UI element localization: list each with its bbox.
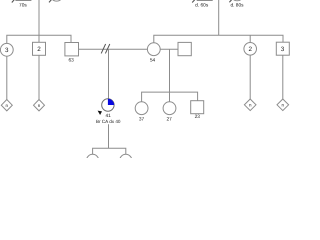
svg-text:Br CA dx 40: Br CA dx 40 [96, 119, 121, 124]
svg-text:63: 63 [69, 58, 75, 64]
svg-text:2: 2 [248, 46, 252, 53]
person II-7 square 3 [276, 42, 289, 55]
wire descent to proband [108, 49, 110, 99]
person III-2 circle 37 [135, 102, 148, 115]
person II-2 square 2 [33, 42, 46, 55]
label Br CA dx 40 [96, 119, 121, 124]
label 27 [167, 116, 173, 122]
label 41 [106, 113, 112, 119]
wire below square 3 right to diamond [282, 55, 284, 99]
proband arrow [98, 111, 102, 115]
wire below circle 3 to diamond [6, 56, 8, 99]
svg-text:3: 3 [281, 46, 285, 53]
person II-1 circle 3 [0, 43, 13, 56]
wire below circle 2 right to diamond [249, 55, 251, 99]
person I-4 circle deceased top-right [229, 0, 243, 2]
svg-text:37: 37 [139, 116, 145, 122]
label 23 [195, 114, 201, 120]
person III-4 square 23 [191, 101, 204, 114]
person IV-2 circle bottom right [120, 154, 132, 166]
wire sibship line bottom children [93, 148, 126, 154]
separation double slash [101, 44, 110, 53]
wire descent from top-right couple [218, 0, 220, 35]
person II-5 spouse square [178, 42, 191, 55]
wire marriage line 63-54 [79, 48, 148, 50]
person I-2 circle deceased top-left [49, 0, 63, 2]
wire below square 2 to diamond [38, 55, 40, 99]
person II-3 square 63 [65, 43, 79, 56]
svg-text:54: 54 [150, 58, 156, 64]
label d. 80s [230, 3, 244, 9]
label 70s [19, 2, 27, 8]
label 54 [150, 58, 156, 64]
person IV-1 circle bottom left [87, 154, 99, 166]
proband III-1 circle 41 affected quadrant [102, 99, 114, 111]
person II-4 circle 54 [147, 43, 160, 56]
wire sibship line generation II left [7, 35, 71, 43]
wire sibship line 37-27-23 [142, 92, 198, 102]
diamond n offspring of II-6 [244, 99, 256, 111]
person I-3 square deceased top-right [192, 0, 212, 3]
wire marriage line 54-spouse [160, 48, 178, 50]
person I-1 square deceased top-left [12, 0, 31, 3]
person II-6 circle 2 [244, 43, 257, 56]
svg-text:2: 2 [37, 46, 41, 53]
label 37 [139, 116, 145, 122]
wire descent from top-left couple [38, 0, 40, 42]
svg-text:3: 3 [5, 47, 9, 54]
person III-3 circle 27 [163, 102, 176, 115]
diamond n offspring of II-2 [34, 100, 45, 111]
diamond n offspring of II-1 [1, 100, 12, 111]
svg-text:70s: 70s [19, 2, 27, 8]
diamond n offspring of II-7 [277, 99, 289, 111]
svg-text:23: 23 [195, 114, 201, 120]
svg-text:d. 80s: d. 80s [230, 3, 244, 9]
label d. 60s [195, 3, 209, 9]
svg-text:27: 27 [167, 116, 173, 122]
wire drop to circle 2 right [249, 35, 251, 42]
wire sibship line generation II right [154, 35, 283, 43]
wire descent to sibship 37-27-23 [169, 49, 171, 102]
svg-text:d. 60s: d. 60s [195, 3, 209, 9]
label 63 [69, 58, 75, 64]
wire descent from proband to children [108, 124, 110, 148]
